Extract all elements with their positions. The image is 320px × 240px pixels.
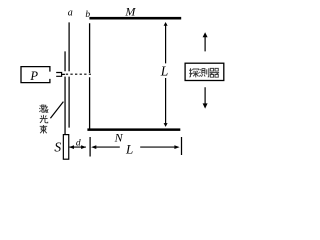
svg-text:M: M (124, 5, 136, 19)
svg-text:N: N (114, 130, 124, 144)
svg-text:S: S (54, 139, 61, 154)
svg-text:L: L (125, 141, 133, 156)
svg-text:d: d (76, 138, 81, 148)
svg-text:L: L (160, 63, 169, 78)
svg-text:P: P (29, 69, 38, 83)
svg-text:a: a (68, 8, 73, 19)
